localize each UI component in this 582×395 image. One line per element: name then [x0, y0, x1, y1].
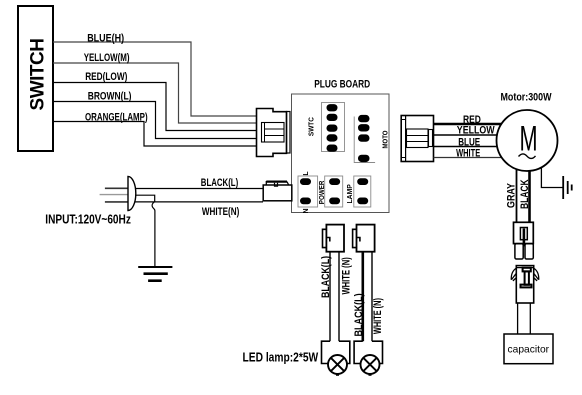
wire BLUE motor — [434, 146, 504, 148]
capacitor C1 — [504, 334, 553, 364]
connector J6 capacitor male — [514, 222, 534, 259]
svg-text:WHITE (N): WHITE (N) — [340, 257, 352, 295]
switch S1 — [18, 6, 53, 151]
body — [516, 266, 533, 303]
POWER pads L/N column — [300, 178, 311, 204]
motor connector J5 — [401, 116, 433, 162]
LAMP pads — [357, 178, 368, 204]
POWER L/N pad bracket — [298, 176, 318, 207]
wire RED(LOW) — [53, 83, 257, 131]
svg-text:RED(LOW): RED(LOW) — [85, 71, 127, 83]
svg-text:capacitor: capacitor — [508, 344, 550, 356]
connector J7 capacitor female — [511, 266, 538, 303]
wire lamp1 WHITE(N) — [338, 252, 340, 342]
lamp DS2 — [361, 355, 380, 375]
MOTO pad bracket — [354, 117, 375, 163]
wing right — [534, 268, 539, 281]
wire capacitor right lead — [529, 303, 531, 335]
wire WHITE motor — [434, 157, 511, 159]
svg-text:WHITE (N): WHITE (N) — [372, 298, 384, 334]
wire ORANGE(LAMP) — [53, 122, 257, 147]
ground wire motor — [541, 164, 562, 188]
LED connector J3 — [323, 225, 345, 252]
wire capacitor left lead — [517, 303, 519, 335]
svg-text:BLACK(L): BLACK(L) — [320, 256, 332, 298]
LED connector J4 — [353, 225, 375, 252]
svg-text:LED lamp:2*5W: LED lamp:2*5W — [243, 351, 319, 365]
svg-text:YELLOW(M): YELLOW(M) — [84, 52, 130, 64]
lamp DS2 housing — [354, 341, 382, 363]
wire BROWN(L) — [53, 102, 257, 139]
svg-text:SWTC: SWTC — [308, 117, 315, 136]
wire lamp2 WHITE(N) — [371, 252, 373, 342]
wire BLACK — [528, 167, 531, 222]
svg-text:Motor:300W: Motor:300W — [501, 92, 552, 104]
svg-text:L: L — [303, 171, 310, 176]
svg-text:BLUE(H): BLUE(H) — [87, 32, 124, 44]
wing left — [511, 268, 516, 281]
lamp DS1 — [328, 355, 347, 375]
ground wire from plug — [133, 195, 155, 266]
svg-text:BROWN(L): BROWN(L) — [88, 90, 132, 102]
plug board PB1 — [292, 94, 390, 213]
svg-text:N: N — [303, 208, 310, 213]
svg-text:PLUG BOARD: PLUG BOARD — [314, 79, 370, 91]
motor M1 — [497, 110, 558, 171]
wire GRAY — [516, 167, 518, 222]
svg-text:BLACK(L): BLACK(L) — [353, 293, 365, 336]
wire YELLOW(M) — [53, 63, 257, 123]
wire RED motor — [434, 123, 506, 125]
svg-text:ORANGE(LAMP): ORANGE(LAMP) — [85, 111, 148, 123]
lamp DS1 housing — [322, 341, 350, 363]
svg-text:BLACK(L): BLACK(L) — [201, 177, 239, 189]
svg-text:SWITCH: SWITCH — [28, 39, 49, 111]
MOTO pads (4) — [358, 115, 370, 162]
wire BLACK(L) mains — [134, 188, 263, 190]
svg-text:MOTO: MOTO — [383, 130, 390, 148]
svg-text:WHITE(N): WHITE(N) — [202, 206, 240, 218]
svg-text:INPUT:120V~60Hz: INPUT:120V~60Hz — [45, 213, 131, 227]
svg-text:M: M — [519, 120, 537, 158]
svg-text:LAMP: LAMP — [347, 184, 354, 204]
LAMP pad bracket — [354, 176, 371, 207]
connector J1 switch-to-board — [257, 109, 291, 157]
SWTC pad bracket — [322, 103, 345, 152]
svg-text:BLACK: BLACK — [519, 179, 531, 209]
wire BLUE(H) — [53, 42, 257, 116]
wire YELLOW motor — [434, 134, 504, 136]
wire WHITE(N) mains — [134, 201, 263, 203]
pin I-beam — [523, 268, 531, 272]
ground GND1 — [138, 267, 172, 281]
svg-text:WHITE: WHITE — [456, 148, 480, 160]
svg-text:GRAY: GRAY — [506, 182, 518, 208]
SWTC pads (5) — [327, 104, 338, 152]
svg-text:BLUE: BLUE — [458, 136, 480, 148]
POWER middle pad bracket — [325, 176, 343, 207]
wire lamp2 BLACK(L) — [361, 252, 364, 342]
mains plug P1 — [100, 176, 136, 210]
POWER middle pads — [329, 178, 340, 204]
svg-text:YELLOW: YELLOW — [457, 125, 495, 137]
connector J2 power-to-board — [263, 181, 292, 201]
wire lamp1 BLACK(L) — [329, 252, 331, 342]
ground GND2 — [563, 176, 572, 199]
